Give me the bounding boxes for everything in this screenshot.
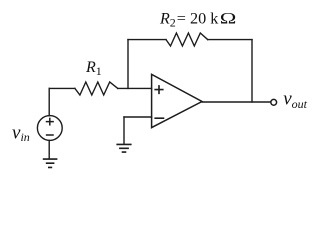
wire: op-amp output xyxy=(202,101,270,103)
op-amp minus pin marker xyxy=(155,117,163,119)
source plus sign xyxy=(47,118,54,124)
ground (op-amp minus input) xyxy=(117,144,131,152)
source minus sign xyxy=(47,134,53,136)
resistor R1 xyxy=(75,82,118,95)
svg-text:= 20 k: = 20 k xyxy=(177,11,219,28)
wire: vertical down to ground (op-amp) xyxy=(123,117,125,144)
svg-text:R2: R2 xyxy=(159,11,176,30)
svg-text:vout: vout xyxy=(283,89,307,111)
wire: R1 to op-amp + input (through node A) xyxy=(118,87,152,89)
wire: left horizontal into R1 xyxy=(49,87,75,89)
wire vin top: vertical from source to R1 wire xyxy=(48,88,50,115)
wire: feedback right vertical down to output node xyxy=(251,40,253,102)
terminal vout open circle xyxy=(271,99,277,105)
wire: source bottom to ground xyxy=(48,140,50,158)
svg-text:vin: vin xyxy=(12,123,30,145)
wire: minus input to ground corner xyxy=(124,116,152,118)
ground (source) xyxy=(44,159,57,167)
svg-text:Ω: Ω xyxy=(220,11,237,28)
wire: feedback top left segment xyxy=(128,39,166,41)
svg-text:R1: R1 xyxy=(85,59,102,78)
source Vin circle xyxy=(37,116,62,141)
resistor R2 xyxy=(166,33,208,46)
node A junction: feedback left vertical xyxy=(127,40,129,89)
op-amp plus pin marker xyxy=(155,86,163,93)
op-amp U1 xyxy=(152,74,202,127)
wire: feedback top right segment xyxy=(208,39,252,41)
